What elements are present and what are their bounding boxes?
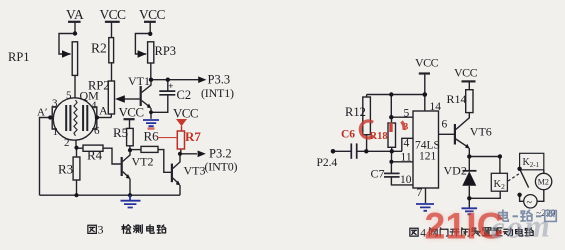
svg-text:3: 3 <box>98 223 104 237</box>
svg-text:VD2: VD2 <box>444 164 467 178</box>
svg-text:A: A <box>99 104 108 118</box>
svg-text:(INT0): (INT0) <box>205 160 238 174</box>
svg-text:com: com <box>490 207 552 245</box>
svg-text:R14: R14 <box>447 92 467 106</box>
svg-text:7: 7 <box>417 187 423 199</box>
svg-text:R6: R6 <box>144 129 160 144</box>
svg-text:(INT1): (INT1) <box>201 86 234 100</box>
svg-text:4: 4 <box>404 138 410 150</box>
svg-text:VCC: VCC <box>119 105 144 120</box>
svg-text:5: 5 <box>404 108 410 120</box>
svg-text:R12: R12 <box>345 105 366 119</box>
svg-text:14: 14 <box>430 101 442 113</box>
svg-text:VCC: VCC <box>139 7 166 22</box>
svg-text:C7: C7 <box>371 167 385 181</box>
svg-text:C6: C6 <box>341 129 355 141</box>
svg-text:VT3: VT3 <box>184 164 206 178</box>
svg-text:+: + <box>168 81 173 91</box>
svg-text:R2: R2 <box>91 41 107 56</box>
svg-text:RP3: RP3 <box>155 44 177 58</box>
svg-text:VT1: VT1 <box>128 74 150 88</box>
svg-text:VT6: VT6 <box>470 125 492 139</box>
svg-text:2: 2 <box>64 137 70 149</box>
svg-text:P2.4: P2.4 <box>317 157 338 169</box>
svg-text:R4: R4 <box>87 148 103 163</box>
svg-text:6: 6 <box>94 125 100 137</box>
svg-text:P3.3: P3.3 <box>208 73 231 87</box>
svg-text:~: ~ <box>527 198 533 209</box>
svg-text:3: 3 <box>404 123 409 133</box>
svg-text:3: 3 <box>52 98 58 110</box>
svg-text:RP1: RP1 <box>8 50 30 64</box>
svg-text:VA: VA <box>66 7 84 22</box>
svg-text:M2: M2 <box>538 178 549 187</box>
svg-text:4: 4 <box>91 100 97 112</box>
svg-text:R5: R5 <box>113 125 128 140</box>
svg-text:A′: A′ <box>37 107 47 119</box>
svg-text:R7: R7 <box>185 129 201 144</box>
svg-text:VCC: VCC <box>173 106 198 121</box>
svg-text:10: 10 <box>400 174 412 186</box>
svg-text:6: 6 <box>442 119 448 131</box>
svg-text:R3: R3 <box>58 162 73 177</box>
svg-text:VCC: VCC <box>454 66 478 80</box>
svg-text:R18: R18 <box>370 131 388 142</box>
svg-text:VCC: VCC <box>415 56 439 70</box>
svg-text:1: 1 <box>53 126 59 138</box>
svg-text:5: 5 <box>66 90 72 102</box>
svg-text:11: 11 <box>401 152 412 164</box>
svg-text:P3.2: P3.2 <box>209 147 232 161</box>
svg-text:VT2: VT2 <box>132 155 154 169</box>
svg-text:VCC: VCC <box>100 7 127 22</box>
svg-text:C2: C2 <box>177 88 192 102</box>
svg-text:121: 121 <box>419 151 437 163</box>
